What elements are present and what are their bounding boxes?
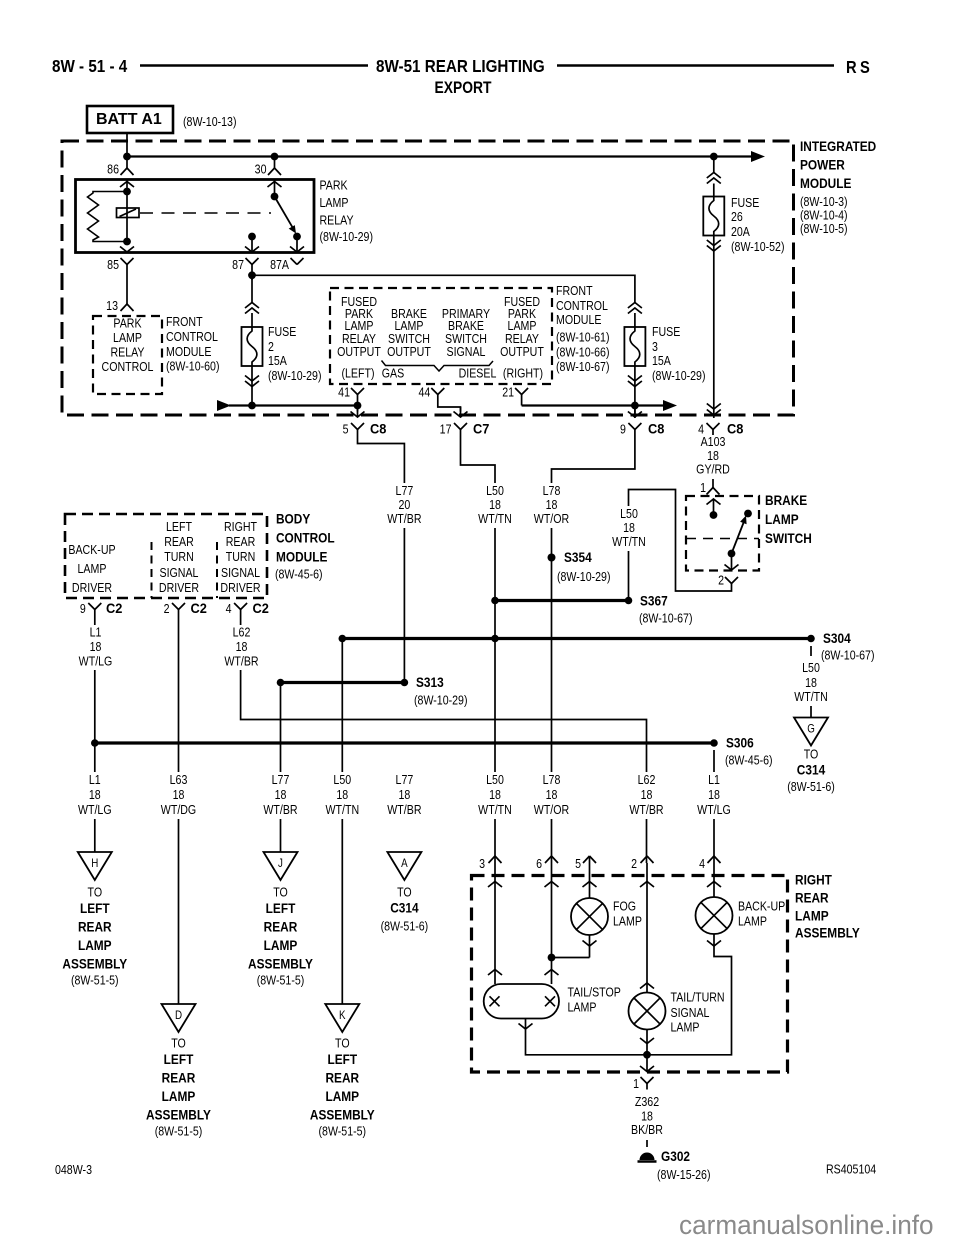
park lamp relay box: [76, 180, 315, 253]
svg-text:(8W-10-67): (8W-10-67): [821, 649, 875, 663]
svg-text:PARK: PARK: [113, 317, 141, 331]
svg-text:LEFT: LEFT: [80, 900, 110, 916]
svg-text:MODULE: MODULE: [166, 345, 212, 359]
svg-text:D: D: [175, 1009, 182, 1022]
brake switch pin 1 connector: [707, 488, 714, 495]
wire pin21 to bus: [521, 401, 523, 406]
triangle connector A: [387, 852, 421, 880]
lamp assembly pin 4 connector: [708, 856, 715, 863]
splice S304: [807, 635, 815, 643]
svg-text:WT/TN: WT/TN: [325, 803, 359, 817]
connector C8 pin 9: [628, 423, 635, 430]
wire pin41 to bus: [357, 401, 359, 412]
FCM pin 13 connector: [121, 304, 128, 311]
svg-text:(8W-51-6): (8W-51-6): [787, 780, 835, 794]
svg-text:BATT A1: BATT A1: [96, 111, 162, 128]
svg-text:REAR: REAR: [226, 535, 256, 549]
triangle connector H: [78, 852, 112, 880]
svg-text:SWITCH: SWITCH: [765, 530, 812, 546]
svg-text:86: 86: [107, 163, 119, 177]
fuse F3 top connector chevrons: [628, 303, 642, 309]
svg-text:BK/BR: BK/BR: [631, 1123, 663, 1137]
relay coil wire pin86: [126, 180, 128, 242]
svg-text:8W-51 REAR LIGHTING: 8W-51 REAR LIGHTING: [376, 57, 545, 76]
svg-text:EXPORT: EXPORT: [435, 79, 493, 97]
svg-text:(8W-51-5): (8W-51-5): [257, 974, 305, 988]
node S306 left junction: [91, 739, 99, 747]
svg-text:FUSE: FUSE: [731, 196, 760, 210]
svg-text:L50: L50: [333, 773, 351, 787]
svg-text:LEFT: LEFT: [266, 900, 296, 916]
label wire L77 18 WT/BR bottom: [381, 772, 428, 819]
fuse F3 bottom connector chevrons: [628, 376, 642, 382]
connector C2 pin 2: [172, 603, 179, 610]
brake lamp switch dashed box: [686, 496, 759, 571]
svg-text:18: 18: [641, 788, 653, 802]
svg-text:BACK-UP: BACK-UP: [68, 543, 115, 557]
splice S354: [548, 554, 556, 562]
svg-text:C2: C2: [191, 601, 207, 616]
svg-text:SIGNAL: SIGNAL: [447, 345, 486, 359]
node pin41-bus junction: [354, 402, 362, 410]
svg-text:17: 17: [440, 423, 452, 437]
svg-text:18: 18: [623, 521, 635, 535]
svg-text:CONTROL: CONTROL: [166, 330, 218, 344]
svg-text:L50: L50: [802, 661, 820, 675]
wire BATT A1 down to bus: [126, 133, 128, 158]
svg-text:(8W-10-67): (8W-10-67): [556, 360, 610, 374]
back-up lamp: [696, 897, 733, 934]
svg-text:REAR: REAR: [164, 535, 194, 549]
svg-text:L50: L50: [486, 484, 504, 498]
fuse F26 symbol: [703, 197, 724, 236]
svg-text:FOG: FOG: [613, 900, 636, 914]
svg-text:LAMP: LAMP: [320, 196, 349, 210]
svg-text:C2: C2: [253, 601, 269, 616]
svg-text:C8: C8: [727, 421, 743, 436]
wire relay 87 down: [251, 271, 253, 281]
svg-text:REAR: REAR: [162, 1070, 196, 1086]
label wire L77 18 WT/BR bottom: [257, 772, 304, 819]
svg-text:L1: L1: [89, 773, 101, 787]
fuse26 wire IPM exit chevrons: [707, 404, 721, 410]
relay pin 30 connector: [274, 157, 276, 169]
svg-text:S354: S354: [564, 549, 592, 565]
wire below fuse3: [634, 366, 636, 418]
svg-text:LAMP: LAMP: [795, 908, 829, 924]
label wire L1 18 WT/LG: [72, 625, 118, 670]
fuse F2 bottom connector chevrons: [245, 376, 259, 382]
node bus pin30 junction: [271, 153, 279, 161]
label wire L1 18 WT/LG bottom: [691, 772, 738, 819]
splice S306: [710, 739, 718, 747]
FCM pin 21 connector: [515, 388, 522, 395]
lamp assembly pin 3 connector: [489, 856, 496, 863]
svg-text:FRONT: FRONT: [556, 284, 593, 298]
svg-text:RS405104: RS405104: [826, 1163, 877, 1177]
svg-text:LEFT: LEFT: [164, 1051, 194, 1067]
node bus fuse26 junction: [710, 153, 718, 161]
svg-text:13: 13: [106, 299, 118, 313]
wire S304 to G: [810, 706, 812, 718]
svg-text:LAMP: LAMP: [395, 319, 424, 333]
wire to fuse3: [634, 313, 636, 327]
label wire L50 18 WT/TN bottom: [319, 772, 366, 819]
svg-text:87A: 87A: [270, 258, 289, 272]
svg-text:L77: L77: [396, 773, 414, 787]
fog lamp ground wire: [589, 935, 591, 958]
svg-text:PARK: PARK: [320, 179, 348, 193]
svg-text:18: 18: [89, 788, 101, 802]
svg-text:POWER: POWER: [800, 157, 845, 173]
svg-text:LAMP: LAMP: [765, 511, 799, 527]
svg-text:(8W-10-67): (8W-10-67): [639, 612, 693, 626]
svg-text:RS: RS: [846, 58, 873, 77]
lamp assembly exit arrow: [646, 1055, 648, 1072]
svg-text:BRAKE: BRAKE: [448, 319, 484, 333]
label wire L50 18 WT/TN brake: [606, 506, 652, 551]
wire below fuse26: [713, 236, 715, 419]
node relay coil bottom: [123, 238, 131, 246]
label wire L78 18 WT/OR bottom: [528, 772, 575, 819]
svg-text:L77: L77: [272, 773, 290, 787]
svg-text:4: 4: [226, 602, 232, 616]
relay pin 85 connector: [121, 258, 128, 265]
IPM exit chevron C7-17: [454, 412, 468, 418]
svg-text:K: K: [339, 1009, 346, 1022]
brake switch exit arrow: [731, 554, 733, 571]
svg-text:WT/LG: WT/LG: [79, 655, 113, 669]
wire L1 right to pin4: [713, 758, 715, 863]
svg-text:LAMP: LAMP: [264, 937, 298, 953]
svg-text:LAMP: LAMP: [162, 1088, 196, 1104]
BCM divider dashes: [151, 542, 153, 598]
svg-text:REAR: REAR: [325, 1070, 359, 1086]
svg-text:FRONT: FRONT: [166, 315, 203, 329]
svg-text:CONTROL: CONTROL: [276, 530, 335, 546]
svg-text:(8W-45-6): (8W-45-6): [725, 754, 773, 768]
svg-text:L1: L1: [90, 626, 102, 640]
node fuse2-bus junction: [248, 402, 256, 410]
svg-text:TAIL/STOP: TAIL/STOP: [568, 986, 622, 1000]
svg-text:ASSEMBLY: ASSEMBLY: [62, 956, 127, 972]
svg-text:L50: L50: [620, 507, 638, 521]
wire S306 tick: [713, 750, 715, 758]
svg-text:LEFT: LEFT: [327, 1051, 357, 1067]
svg-text:(8W-10-29): (8W-10-29): [320, 230, 374, 244]
wire pin44 to C7: [438, 401, 461, 412]
relay contact 87A exit chevron: [290, 247, 304, 253]
svg-text:TO: TO: [804, 748, 819, 762]
tail/stop lamp: [484, 984, 559, 1019]
front control module dashed box (8W-10-60): [93, 316, 162, 394]
svg-text:15A: 15A: [652, 354, 671, 368]
svg-text:C8: C8: [370, 421, 386, 436]
svg-text:9: 9: [620, 423, 626, 437]
splice line S306: [95, 741, 714, 744]
svg-text:41: 41: [338, 386, 350, 400]
svg-text:44: 44: [418, 386, 430, 400]
IPM exit chevron C8-9: [628, 412, 642, 418]
svg-text:S367: S367: [640, 593, 668, 609]
node relay contact 87A: [293, 233, 301, 241]
svg-text:30: 30: [255, 163, 267, 177]
svg-text:1: 1: [700, 481, 706, 495]
svg-text:MODULE: MODULE: [276, 549, 327, 565]
svg-text:WT/TN: WT/TN: [794, 690, 828, 704]
svg-text:WT/OR: WT/OR: [534, 803, 569, 817]
relay pin 87 connector: [246, 258, 253, 265]
body control module dashed box: [65, 514, 267, 598]
brake switch divider dashed: [686, 538, 759, 540]
svg-text:WT/LG: WT/LG: [697, 803, 731, 817]
svg-text:(8W-10-60): (8W-10-60): [166, 360, 220, 374]
battery feed box BATT A1: [87, 106, 173, 133]
wire relay 85 to FCM pin 13: [126, 271, 128, 305]
svg-text:DRIVER: DRIVER: [159, 581, 199, 595]
svg-text:RELAY: RELAY: [342, 332, 376, 346]
svg-text:C7: C7: [473, 421, 489, 436]
svg-text:BACK-UP: BACK-UP: [738, 900, 785, 914]
svg-text:2: 2: [631, 857, 637, 871]
fuse F2 symbol: [242, 327, 263, 366]
node relay coil top: [123, 188, 131, 196]
svg-text:WT/DG: WT/DG: [161, 803, 196, 817]
svg-text:FUSE: FUSE: [268, 325, 297, 339]
fog lamp: [571, 898, 608, 935]
svg-text:2: 2: [718, 574, 724, 588]
relay coil symbol: [117, 208, 140, 218]
FCM pin 41 connector: [351, 388, 358, 395]
svg-text:WT/OR: WT/OR: [534, 512, 569, 526]
svg-text:3: 3: [479, 857, 485, 871]
svg-text:8W - 51 - 4: 8W - 51 - 4: [52, 57, 128, 76]
splice line S367: [495, 599, 629, 602]
svg-text:(8W-10-29): (8W-10-29): [414, 694, 468, 708]
connector C2 pin 4: [234, 603, 241, 610]
brake switch pin 2 connector: [725, 577, 732, 584]
svg-text:S306: S306: [726, 735, 754, 751]
svg-text:C8: C8: [648, 421, 664, 436]
svg-text:REAR: REAR: [264, 919, 298, 935]
connector C8 pin 4: [707, 423, 714, 430]
node relay contact 87: [248, 233, 256, 241]
fuse F3 symbol: [624, 327, 645, 366]
svg-text:(8W-51-6): (8W-51-6): [381, 920, 429, 934]
ground G302: [640, 1153, 655, 1161]
svg-text:18: 18: [489, 498, 501, 512]
label wire L1 18 WT/LG bottom: [71, 772, 118, 819]
svg-text:GAS: GAS: [382, 367, 405, 381]
wire L50 from C7-17: [461, 436, 496, 864]
svg-text:C2: C2: [106, 601, 122, 616]
relay pin 87A connector: [291, 258, 298, 265]
svg-text:G: G: [807, 723, 815, 736]
svg-text:WT/BR: WT/BR: [387, 512, 421, 526]
label wire L50 18 WT/TN: [472, 483, 518, 528]
node S367 left junction: [491, 597, 499, 605]
wire L63 from C2-2: [178, 616, 180, 1005]
svg-text:20A: 20A: [731, 225, 750, 239]
svg-text:TO: TO: [171, 1037, 186, 1051]
wire L77 from C8-5: [358, 436, 405, 683]
svg-text:L62: L62: [233, 626, 251, 640]
lamp assembly pin 6 connector: [545, 856, 552, 863]
relay pin 86 connector: [126, 157, 128, 169]
svg-text:WT/BR: WT/BR: [263, 803, 297, 817]
svg-text:WT/BR: WT/BR: [629, 803, 663, 817]
arrow top bus: [751, 151, 765, 162]
svg-text:Z362: Z362: [635, 1095, 659, 1109]
FCM pin 44 connector: [431, 388, 438, 395]
svg-text:OUTPUT: OUTPUT: [387, 345, 431, 359]
fuse F26 bottom connector chevrons: [707, 240, 721, 246]
connector C7 pin 17: [454, 423, 461, 430]
svg-text:(8W-10-3): (8W-10-3): [800, 195, 848, 209]
lamp pin 2 entry chevron: [646, 863, 648, 993]
svg-text:L77: L77: [396, 484, 414, 498]
svg-text:H: H: [91, 857, 98, 870]
wire bus to fuse26: [713, 157, 715, 173]
svg-text:(8W-10-29): (8W-10-29): [557, 570, 611, 584]
svg-text:REAR: REAR: [795, 890, 829, 906]
triangle connector J: [264, 852, 298, 880]
svg-text:S304: S304: [823, 630, 851, 646]
wire A103 from C8-4: [712, 436, 714, 488]
wire lower bus left: [229, 404, 358, 406]
svg-text:(8W-10-61): (8W-10-61): [556, 331, 610, 345]
relay coil dashed link: [140, 212, 271, 214]
svg-text:1: 1: [633, 1077, 639, 1091]
svg-text:(8W-51-5): (8W-51-5): [155, 1125, 203, 1139]
svg-text:WT/TN: WT/TN: [478, 512, 512, 526]
svg-text:18: 18: [546, 498, 558, 512]
svg-text:18: 18: [641, 1110, 653, 1124]
svg-text:9: 9: [80, 602, 86, 616]
fuse F26 top connector chevrons: [707, 173, 721, 179]
wire below fuse2: [251, 366, 253, 406]
arrow lower bus left: [217, 400, 231, 411]
svg-text:(8W-51-5): (8W-51-5): [71, 974, 119, 988]
wire L78 from C8-9: [552, 436, 635, 864]
svg-text:87: 87: [232, 258, 244, 272]
svg-text:ASSEMBLY: ASSEMBLY: [146, 1107, 211, 1123]
svg-text:(8W-10-29): (8W-10-29): [652, 369, 706, 383]
svg-text:ASSEMBLY: ASSEMBLY: [795, 925, 860, 941]
front control module dashed box (8W-10-61): [330, 288, 552, 384]
svg-text:LAMP: LAMP: [113, 331, 142, 345]
svg-text:C314: C314: [390, 900, 418, 916]
svg-text:GY/RD: GY/RD: [696, 463, 730, 477]
svg-text:G302: G302: [661, 1148, 690, 1164]
svg-text:RIGHT: RIGHT: [224, 520, 257, 534]
svg-text:20: 20: [398, 498, 410, 512]
node S313 left junction: [277, 679, 285, 687]
svg-text:WT/LG: WT/LG: [78, 803, 112, 817]
svg-text:(8W-10-29): (8W-10-29): [268, 369, 322, 383]
svg-text:FUSE: FUSE: [652, 325, 681, 339]
svg-text:18: 18: [173, 788, 185, 802]
svg-text:18: 18: [398, 788, 410, 802]
node S304 mid junction: [491, 635, 499, 643]
svg-text:carmanualsonline.info: carmanualsonline.info: [679, 1210, 934, 1240]
svg-text:RELAY: RELAY: [505, 332, 539, 346]
svg-text:DIESEL: DIESEL: [459, 367, 497, 381]
svg-text:OUTPUT: OUTPUT: [500, 345, 544, 359]
svg-text:WT/BR: WT/BR: [387, 803, 421, 817]
svg-text:(8W-45-6): (8W-45-6): [275, 568, 323, 582]
tail/stop ground wire: [526, 1019, 648, 1055]
wire L77 to J: [280, 683, 282, 853]
right rear lamp assembly dashed box: [472, 876, 788, 1073]
node 87 junction: [248, 271, 256, 279]
node fog-tail junction: [548, 954, 556, 962]
svg-text:DRIVER: DRIVER: [72, 581, 112, 595]
svg-text:MODULE: MODULE: [556, 313, 602, 327]
svg-text:3: 3: [652, 340, 658, 354]
svg-text:BRAKE: BRAKE: [765, 492, 807, 508]
svg-text:ASSEMBLY: ASSEMBLY: [310, 1107, 375, 1123]
svg-text:18: 18: [275, 788, 287, 802]
label wire L50 18 WT/TN bottom: [472, 772, 519, 819]
svg-text:RIGHT: RIGHT: [795, 872, 832, 888]
label wire L77 20 WT/BR: [381, 483, 428, 528]
svg-text:2: 2: [164, 602, 170, 616]
svg-text:18: 18: [708, 788, 720, 802]
lamp pin 6 entry chevron: [551, 863, 553, 984]
wire 87 junction to fuse2: [251, 275, 253, 303]
svg-text:REAR: REAR: [78, 919, 112, 935]
svg-text:18: 18: [707, 449, 719, 463]
relay contact 87 exit chevron: [245, 247, 259, 253]
lamp pin 5 entry chevron: [589, 856, 591, 898]
node brake switch arm pivot: [728, 550, 736, 558]
svg-text:SIGNAL: SIGNAL: [160, 566, 199, 580]
svg-text:WT/TN: WT/TN: [612, 535, 646, 549]
resistor relay: [88, 192, 128, 242]
svg-text:LAMP: LAMP: [78, 562, 107, 576]
wire lower bus right: [522, 404, 663, 406]
svg-text:18: 18: [805, 676, 817, 690]
svg-text:4: 4: [699, 857, 705, 871]
wire Z362 tick: [646, 1140, 648, 1147]
svg-text:(RIGHT): (RIGHT): [503, 367, 543, 381]
svg-text:L63: L63: [170, 773, 188, 787]
svg-text:18: 18: [546, 788, 558, 802]
svg-text:(8W-10-13): (8W-10-13): [183, 115, 237, 129]
label wire L78 18 WT/OR: [528, 483, 575, 528]
svg-text:LAMP: LAMP: [568, 1001, 597, 1015]
svg-text:(8W-10-4): (8W-10-4): [800, 209, 848, 223]
wire S304 tick: [810, 646, 812, 656]
wire brake switch pin2 to S367: [629, 490, 732, 601]
triangle connector G: [794, 718, 828, 746]
node brake switch pole: [710, 511, 718, 519]
svg-text:SWITCH: SWITCH: [445, 332, 487, 346]
svg-text:TAIL/TURN: TAIL/TURN: [671, 991, 725, 1005]
svg-text:18: 18: [489, 788, 501, 802]
svg-text:MODULE: MODULE: [800, 175, 851, 191]
connector C8 pin 5: [351, 423, 358, 430]
svg-text:(8W-15-26): (8W-15-26): [657, 1168, 711, 1182]
tail/turn signal lamp: [629, 993, 666, 1030]
svg-text:L50: L50: [486, 773, 504, 787]
node fuse3-bus junction: [631, 402, 639, 410]
svg-text:LAMP: LAMP: [671, 1021, 700, 1035]
svg-text:26: 26: [731, 210, 743, 224]
header rule left: [140, 64, 368, 67]
svg-text:L78: L78: [543, 484, 561, 498]
